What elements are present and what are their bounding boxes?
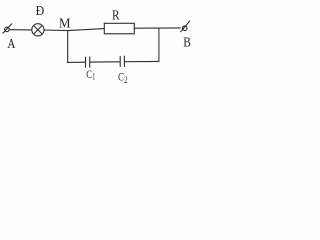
wire resistor to terminal B [134, 27, 181, 29]
right junction vertical wire [158, 28, 160, 62]
wire lamp to resistor through node M [44, 29, 104, 31]
label C2 [118, 69, 128, 85]
terminal A [3, 24, 13, 34]
lamp D (circle with X) [32, 24, 44, 36]
label C1 [86, 67, 95, 82]
resistor R body [104, 23, 134, 34]
svg-text:Đ: Đ [36, 4, 45, 19]
capacitor C2 plates [120, 56, 124, 67]
svg-text:1: 1 [92, 73, 95, 83]
svg-text:C: C [86, 67, 92, 81]
svg-text:M: M [59, 16, 71, 31]
terminal B [181, 21, 190, 32]
bottom wire C2 to right junction [125, 60, 160, 62]
svg-text:R: R [112, 9, 120, 24]
bottom wire M to C1 [67, 61, 85, 63]
capacitor C1 plates [86, 57, 90, 68]
wire A to lamp [9, 29, 31, 31]
svg-text:2: 2 [124, 76, 128, 86]
svg-text:A: A [7, 37, 16, 52]
svg-text:B: B [183, 35, 191, 50]
wire C1 to C2 [90, 61, 120, 63]
node M vertical wire down [67, 30, 69, 63]
